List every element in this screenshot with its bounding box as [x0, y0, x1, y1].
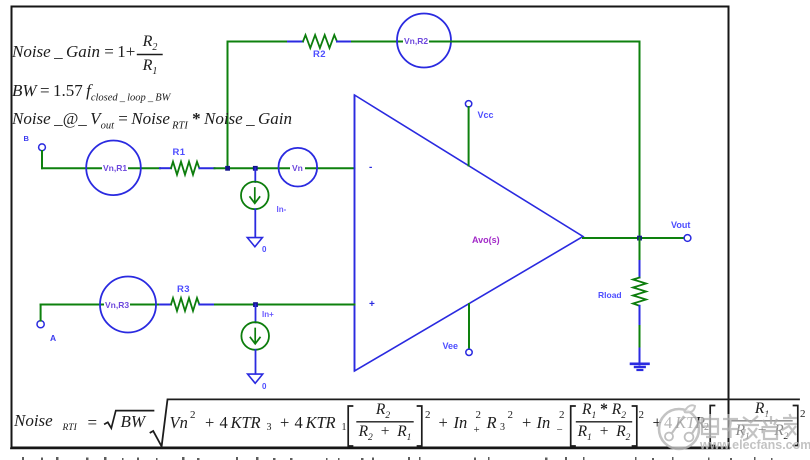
- wire: In- to ground: [254, 209, 256, 237]
- ground below Rload: [631, 364, 649, 370]
- noise source Vn: [279, 148, 318, 187]
- label Vee: [443, 341, 459, 351]
- fraction R2/(R2+R1): [355, 401, 411, 421]
- label plus input: [369, 299, 375, 310]
- wire: feedback top run from riser corner to R2: [228, 41, 288, 43]
- label 0 at In+ ground: [262, 382, 266, 391]
- bottom formula Noise_RTI: [14, 411, 53, 431]
- noise source Vn,R3: [100, 277, 156, 333]
- port A: [37, 321, 44, 328]
- formula: BW = 1.57 f_closed_loop_BW: [12, 81, 170, 103]
- label R1: [173, 147, 186, 158]
- port Vcc: [465, 101, 471, 107]
- wire: R1 to Vn: [215, 167, 355, 169]
- port Vee: [466, 349, 472, 355]
- resistor R2: [288, 35, 352, 48]
- bracket [ after KTR2: [710, 406, 714, 446]
- label Avo(s): [472, 235, 500, 245]
- current source In-: [241, 182, 269, 210]
- fraction bar R1*R2/(R1+R2): [577, 421, 632, 423]
- wire: In+ stem: [255, 305, 257, 323]
- label minus input: [369, 162, 372, 173]
- noise source Vn,R2: [397, 14, 451, 68]
- noise source Vn,R1: [86, 141, 141, 196]
- wire: riser from inverting node up to R2: [227, 42, 229, 169]
- resistor Rload: [633, 261, 646, 326]
- label R2: [313, 49, 326, 60]
- node: junction dot at In-: [253, 166, 258, 171]
- bracket [ before R1*R2 fraction: [571, 406, 575, 446]
- bracket ] closing R1*R2 fraction: [633, 406, 637, 446]
- wire: Vee stem: [468, 304, 470, 349]
- wire: R3 to op-amp non-inverting input: [215, 304, 355, 306]
- label In+: [262, 310, 274, 319]
- label Vn,R3: [104, 300, 130, 310]
- label Vn: [290, 163, 305, 173]
- fraction bar R2/(R2+R1): [357, 421, 413, 423]
- fraction R1*R2/(R1+R2): [577, 401, 632, 421]
- current source In+: [241, 322, 269, 350]
- wire: In- stem: [254, 168, 256, 182]
- fraction R1/(R1+R2): [732, 400, 792, 420]
- ground (0) below In-: [247, 238, 262, 247]
- bracket ] closing R2/(R2+R1): [418, 406, 422, 446]
- wire: R2 to Vn,R2: [352, 41, 451, 43]
- wire: Vcc stem: [468, 107, 470, 166]
- wire: Vn,R2 to feedback riser and down to output node: [451, 42, 640, 239]
- label A: [50, 333, 56, 343]
- resistor R3: [160, 298, 215, 311]
- formula: Noise_@_Vout = Noise_RTI * Noise_Gain: [12, 109, 292, 131]
- op-amp U1 triangle: [355, 95, 584, 371]
- port Vout: [684, 235, 691, 242]
- port B: [39, 144, 46, 151]
- wire: A stem: [40, 305, 42, 321]
- fraction bar R1/(R1+R2): [732, 420, 792, 422]
- label Vout: [671, 220, 690, 230]
- big square-root radical of Noise_RTI expression: [151, 399, 800, 446]
- wire: A to Vn,R3: [41, 304, 160, 306]
- node: junction dot at In+: [253, 302, 258, 307]
- wire: output node down to Rload: [639, 238, 641, 261]
- formula: Noise_Gain = 1 + R2/R1: [12, 42, 135, 62]
- bracket [ after KTR1: [348, 406, 352, 446]
- label Vn,R1: [102, 163, 128, 173]
- wire: op-amp output to Vout: [583, 237, 684, 239]
- wire: In+ to ground: [255, 350, 257, 374]
- wire: B stem: [41, 151, 43, 168]
- fraction bar R2/R1 of Noise_Gain: [138, 54, 163, 56]
- bracket ] final: [794, 406, 798, 446]
- wire: B to Vn,R1: [42, 167, 160, 169]
- node: output junction dot: [637, 236, 642, 241]
- resistor R1: [160, 162, 215, 175]
- square-root radical of sqrt(BW): [105, 411, 154, 429]
- label Vn,R2: [403, 36, 429, 46]
- label Vcc: [478, 110, 494, 120]
- ground (0) below In+: [248, 374, 263, 383]
- label R3: [177, 284, 190, 295]
- label B: [24, 134, 29, 143]
- wire: Rload to ground: [639, 326, 641, 349]
- faux character strokes (watermark CJK approximation): [702, 414, 797, 440]
- label In-: [277, 205, 287, 214]
- label 0 at In- ground: [262, 245, 266, 254]
- node: junction dot at riser: [225, 166, 230, 171]
- label Rload: [598, 290, 622, 300]
